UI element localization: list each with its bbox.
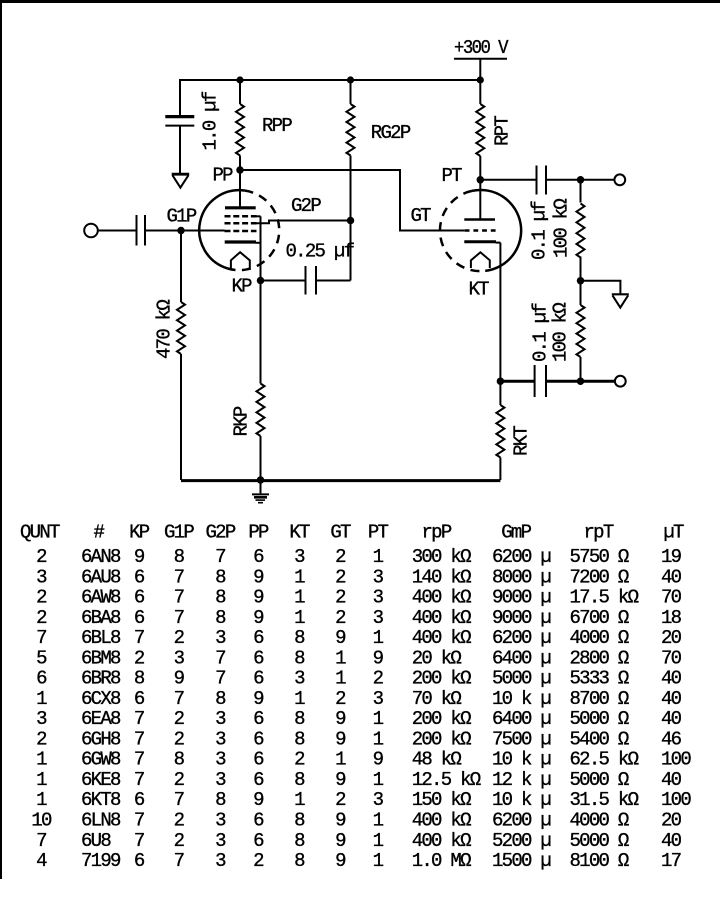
svg-text:5000 Ω: 5000 Ω bbox=[570, 708, 629, 730]
svg-text:300 kΩ: 300 kΩ bbox=[412, 546, 471, 568]
svg-text:2: 2 bbox=[335, 789, 346, 811]
svg-text:PT: PT bbox=[368, 522, 389, 544]
node KP bbox=[232, 276, 265, 298]
svg-text:6AU8: 6AU8 bbox=[81, 566, 121, 588]
svg-text:6: 6 bbox=[253, 830, 264, 852]
svg-text:7: 7 bbox=[174, 607, 184, 629]
wire input to coupling cap bbox=[97, 230, 136, 232]
svg-text:3: 3 bbox=[373, 607, 384, 629]
svg-text:9: 9 bbox=[335, 769, 346, 791]
svg-text:6: 6 bbox=[253, 769, 264, 791]
resistor RG2P bbox=[347, 80, 411, 221]
svg-text:7: 7 bbox=[134, 749, 144, 771]
svg-text:8: 8 bbox=[174, 749, 185, 771]
svg-text:2: 2 bbox=[335, 688, 346, 710]
output terminal (top) bbox=[614, 174, 625, 185]
svg-text:6: 6 bbox=[134, 688, 145, 710]
svg-text:8: 8 bbox=[294, 728, 305, 750]
svg-text:40: 40 bbox=[661, 566, 682, 588]
junction dot bottom output bbox=[577, 377, 585, 385]
resistor RKT bbox=[496, 381, 532, 480]
svg-text:3: 3 bbox=[36, 708, 47, 730]
svg-text:9: 9 bbox=[335, 810, 346, 832]
svg-text:0.1 µf: 0.1 µf bbox=[530, 303, 552, 362]
svg-text:9: 9 bbox=[253, 789, 264, 811]
svg-text:6: 6 bbox=[134, 587, 145, 609]
svg-text:8: 8 bbox=[294, 769, 305, 791]
svg-text:3: 3 bbox=[294, 546, 305, 568]
svg-text:8: 8 bbox=[134, 668, 145, 690]
svg-text:150 kΩ: 150 kΩ bbox=[412, 789, 471, 811]
svg-text:7200 Ω: 7200 Ω bbox=[570, 566, 629, 588]
node G1P bbox=[167, 206, 197, 235]
svg-text:G1P: G1P bbox=[164, 522, 194, 544]
svg-text:7: 7 bbox=[36, 627, 46, 649]
svg-text:19: 19 bbox=[661, 546, 682, 568]
node PT bbox=[442, 165, 485, 187]
svg-text:3: 3 bbox=[36, 566, 47, 588]
svg-text:1.0 µf: 1.0 µf bbox=[200, 91, 222, 150]
svg-text:7: 7 bbox=[36, 830, 46, 852]
svg-text:6BR8: 6BR8 bbox=[81, 668, 121, 690]
svg-text:6700 Ω: 6700 Ω bbox=[570, 607, 629, 629]
resistor RPT bbox=[476, 80, 513, 180]
pentode suppressor grid bbox=[225, 215, 261, 218]
junction dot RPP top bbox=[236, 76, 243, 83]
svg-text:1: 1 bbox=[36, 749, 47, 771]
capacitor 1.0 uF bypass bbox=[165, 79, 221, 173]
svg-text:4000 Ω: 4000 Ω bbox=[570, 627, 629, 649]
svg-text:5: 5 bbox=[36, 647, 47, 669]
svg-text:6EA8: 6EA8 bbox=[81, 708, 121, 730]
svg-text:2: 2 bbox=[134, 647, 145, 669]
svg-text:1: 1 bbox=[335, 749, 346, 771]
svg-text:1: 1 bbox=[294, 607, 305, 629]
wire PT to top output cap bbox=[480, 179, 536, 181]
svg-text:1: 1 bbox=[373, 810, 384, 832]
svg-text:1: 1 bbox=[36, 688, 47, 710]
capacitor 0.1 uF (top output) bbox=[529, 166, 615, 261]
svg-text:6400 µ: 6400 µ bbox=[492, 647, 551, 669]
svg-text:7199: 7199 bbox=[81, 850, 121, 872]
svg-text:6: 6 bbox=[36, 668, 47, 690]
svg-text:1: 1 bbox=[294, 566, 305, 588]
svg-text:470 kΩ: 470 kΩ bbox=[154, 300, 176, 359]
svg-text:1: 1 bbox=[373, 546, 384, 568]
svg-text:8100 Ω: 8100 Ω bbox=[570, 850, 629, 872]
svg-text:4000 Ω: 4000 Ω bbox=[570, 810, 629, 832]
pentode plate bar bbox=[225, 206, 256, 209]
svg-text:3: 3 bbox=[215, 708, 226, 730]
svg-text:400 kΩ: 400 kΩ bbox=[412, 627, 471, 649]
node PP bbox=[213, 165, 244, 187]
svg-text:0.25 µf: 0.25 µf bbox=[286, 241, 355, 263]
svg-text:5000 µ: 5000 µ bbox=[492, 668, 551, 690]
triode plate lead bbox=[479, 180, 481, 219]
svg-text:10 k µ: 10 k µ bbox=[492, 688, 551, 710]
node G2P bbox=[291, 195, 354, 224]
svg-text:6BL8: 6BL8 bbox=[81, 627, 121, 649]
svg-text:1.0 MΩ: 1.0 MΩ bbox=[412, 850, 471, 872]
svg-text:2: 2 bbox=[335, 607, 346, 629]
svg-text:6KT8: 6KT8 bbox=[81, 789, 121, 811]
svg-text:KP: KP bbox=[232, 276, 253, 298]
svg-text:RPT: RPT bbox=[491, 116, 513, 146]
svg-text:KT: KT bbox=[289, 522, 310, 544]
svg-text:3: 3 bbox=[174, 647, 185, 669]
svg-text:2: 2 bbox=[335, 546, 346, 568]
svg-text:6: 6 bbox=[253, 647, 264, 669]
svg-text:2: 2 bbox=[174, 830, 185, 852]
triode cathode bar bbox=[464, 240, 500, 244]
svg-text:3: 3 bbox=[215, 769, 226, 791]
svg-text:46: 46 bbox=[661, 728, 682, 750]
svg-text:G1P: G1P bbox=[167, 206, 197, 228]
svg-text:40: 40 bbox=[661, 769, 682, 791]
svg-text:3: 3 bbox=[215, 728, 226, 750]
svg-text:8: 8 bbox=[215, 587, 226, 609]
svg-text:RPP: RPP bbox=[262, 115, 292, 137]
svg-text:2: 2 bbox=[373, 668, 384, 690]
svg-text:7: 7 bbox=[134, 769, 144, 791]
svg-text:3: 3 bbox=[215, 749, 226, 771]
svg-text:RKT: RKT bbox=[511, 426, 533, 456]
svg-text:6AW8: 6AW8 bbox=[81, 587, 121, 609]
+300 V supply bbox=[454, 37, 509, 83]
triode tube circle (right solid, left dashed) bbox=[440, 190, 521, 271]
svg-text:10 k µ: 10 k µ bbox=[492, 789, 551, 811]
svg-text:8000 µ: 8000 µ bbox=[492, 566, 551, 588]
svg-text:PP: PP bbox=[248, 522, 269, 544]
triode cathode lead down bbox=[499, 243, 501, 382]
svg-text:200 kΩ: 200 kΩ bbox=[412, 708, 471, 730]
svg-text:µT: µT bbox=[663, 522, 684, 544]
svg-text:1: 1 bbox=[335, 647, 346, 669]
svg-text:4: 4 bbox=[36, 850, 47, 872]
svg-text:6KE8: 6KE8 bbox=[81, 769, 121, 791]
svg-text:6: 6 bbox=[134, 566, 145, 588]
svg-text:9: 9 bbox=[335, 830, 346, 852]
svg-text:2: 2 bbox=[253, 850, 264, 872]
svg-text:5000 Ω: 5000 Ω bbox=[570, 769, 629, 791]
svg-text:1500 µ: 1500 µ bbox=[492, 850, 551, 872]
svg-text:8: 8 bbox=[294, 647, 305, 669]
svg-text:8: 8 bbox=[215, 688, 226, 710]
svg-text:6: 6 bbox=[253, 810, 264, 832]
svg-text:1: 1 bbox=[373, 627, 384, 649]
svg-text:3: 3 bbox=[373, 688, 384, 710]
svg-text:2: 2 bbox=[174, 708, 185, 730]
wire KT to bottom output cap bbox=[500, 380, 534, 383]
svg-text:7: 7 bbox=[134, 627, 144, 649]
svg-text:40: 40 bbox=[661, 668, 682, 690]
svg-text:400 kΩ: 400 kΩ bbox=[412, 607, 471, 629]
svg-text:5000 Ω: 5000 Ω bbox=[570, 830, 629, 852]
svg-text:7: 7 bbox=[215, 668, 225, 690]
svg-text:8: 8 bbox=[294, 708, 305, 730]
svg-text:6: 6 bbox=[134, 850, 145, 872]
svg-text:7500 µ: 7500 µ bbox=[492, 728, 551, 750]
svg-text:400 kΩ: 400 kΩ bbox=[412, 830, 471, 852]
svg-text:2: 2 bbox=[335, 566, 346, 588]
svg-text:5200 µ: 5200 µ bbox=[492, 830, 551, 852]
resistor 470 kOhm grid leak bbox=[154, 231, 186, 481]
svg-text:6400 µ: 6400 µ bbox=[492, 708, 551, 730]
triode grid bbox=[465, 229, 496, 232]
svg-text:6GW8: 6GW8 bbox=[81, 749, 121, 771]
svg-text:9: 9 bbox=[335, 627, 346, 649]
svg-text:6200 µ: 6200 µ bbox=[492, 810, 551, 832]
svg-text:6200 µ: 6200 µ bbox=[492, 627, 551, 649]
svg-text:2: 2 bbox=[36, 728, 47, 750]
svg-text:200 kΩ: 200 kΩ bbox=[412, 668, 471, 690]
svg-text:10 k µ: 10 k µ bbox=[492, 749, 551, 771]
svg-text:1: 1 bbox=[36, 789, 47, 811]
svg-text:70: 70 bbox=[661, 587, 682, 609]
svg-text:18: 18 bbox=[661, 607, 682, 629]
svg-text:40: 40 bbox=[661, 688, 682, 710]
resistor RKP bbox=[231, 281, 265, 481]
svg-text:0.1 µf: 0.1 µf bbox=[529, 201, 551, 260]
svg-text:8: 8 bbox=[215, 566, 226, 588]
svg-text:20: 20 bbox=[661, 627, 682, 649]
svg-text:9: 9 bbox=[174, 668, 185, 690]
svg-text:2: 2 bbox=[335, 587, 346, 609]
svg-text:7: 7 bbox=[215, 546, 225, 568]
svg-text:100: 100 bbox=[661, 789, 691, 811]
pentode control grid bbox=[225, 230, 257, 233]
svg-text:2: 2 bbox=[36, 587, 47, 609]
svg-text:8: 8 bbox=[294, 627, 305, 649]
node KT bbox=[469, 279, 505, 385]
svg-text:20: 20 bbox=[661, 810, 682, 832]
svg-text:200 kΩ: 200 kΩ bbox=[412, 728, 471, 750]
pentode tube circle (left solid, right dashed) bbox=[199, 190, 279, 270]
svg-text:5400 Ω: 5400 Ω bbox=[570, 728, 629, 750]
svg-text:6200 µ: 6200 µ bbox=[492, 546, 551, 568]
svg-text:7: 7 bbox=[134, 728, 144, 750]
svg-text:9: 9 bbox=[253, 587, 264, 609]
ground (right, triangle) bbox=[612, 294, 629, 307]
svg-text:3: 3 bbox=[373, 789, 384, 811]
resistor 100 kOhm (bottom) bbox=[550, 281, 585, 382]
svg-text:8: 8 bbox=[294, 830, 305, 852]
junction dot RG2P top bbox=[347, 76, 354, 83]
svg-text:8: 8 bbox=[215, 607, 226, 629]
capacitor 0.1 uF (bottom output) bbox=[530, 303, 616, 397]
svg-text:17.5 kΩ: 17.5 kΩ bbox=[570, 587, 639, 609]
svg-text:GmP: GmP bbox=[501, 522, 531, 544]
svg-text:8700 Ω: 8700 Ω bbox=[570, 688, 629, 710]
svg-text:6: 6 bbox=[253, 728, 264, 750]
pentode screen grid + lead to G2P bbox=[225, 221, 351, 224]
triode plate bar bbox=[464, 218, 495, 221]
svg-text:70 kΩ: 70 kΩ bbox=[412, 688, 462, 710]
svg-text:1: 1 bbox=[294, 789, 305, 811]
svg-text:6: 6 bbox=[253, 708, 264, 730]
svg-text:6: 6 bbox=[253, 668, 264, 690]
svg-text:70: 70 bbox=[661, 647, 682, 669]
svg-text:9: 9 bbox=[373, 647, 384, 669]
svg-text:7: 7 bbox=[134, 830, 144, 852]
svg-text:5750 Ω: 5750 Ω bbox=[570, 546, 629, 568]
svg-text:3: 3 bbox=[215, 850, 226, 872]
resistor RPP bbox=[236, 80, 292, 170]
ground (bottom, earth symbol) bbox=[252, 476, 269, 502]
coupling capacitor (input) bbox=[137, 215, 225, 246]
svg-text:GT: GT bbox=[411, 205, 432, 227]
svg-text:2: 2 bbox=[174, 728, 185, 750]
svg-text:2: 2 bbox=[36, 607, 47, 629]
svg-text:1: 1 bbox=[373, 728, 384, 750]
svg-text:9: 9 bbox=[134, 546, 145, 568]
svg-text:8: 8 bbox=[294, 850, 305, 872]
wire bottom ground rail bbox=[181, 479, 500, 482]
mid node + wire to right ground bbox=[577, 277, 621, 294]
svg-text:3: 3 bbox=[215, 810, 226, 832]
svg-text:2800 Ω: 2800 Ω bbox=[570, 647, 629, 669]
svg-text:2: 2 bbox=[174, 769, 185, 791]
svg-text:40: 40 bbox=[661, 830, 682, 852]
svg-text:2: 2 bbox=[174, 810, 185, 832]
pentode cathode lead down bbox=[260, 216, 262, 280]
svg-text:+300 V: +300 V bbox=[454, 37, 509, 59]
svg-text:5333 Ω: 5333 Ω bbox=[570, 668, 629, 690]
svg-text:100 kΩ: 100 kΩ bbox=[551, 199, 573, 258]
triode heater bbox=[471, 252, 490, 268]
svg-text:20 kΩ: 20 kΩ bbox=[412, 647, 462, 669]
svg-text:7: 7 bbox=[174, 566, 184, 588]
svg-text:6: 6 bbox=[253, 749, 264, 771]
svg-text:PT: PT bbox=[442, 165, 463, 187]
svg-text:48 kΩ: 48 kΩ bbox=[412, 749, 462, 771]
svg-text:2: 2 bbox=[174, 627, 185, 649]
svg-text:6AN8: 6AN8 bbox=[81, 546, 121, 568]
svg-text:1: 1 bbox=[294, 587, 305, 609]
svg-text:6BM8: 6BM8 bbox=[81, 647, 121, 669]
svg-text:9000 µ: 9000 µ bbox=[492, 587, 551, 609]
svg-text:6: 6 bbox=[253, 546, 264, 568]
svg-text:6GH8: 6GH8 bbox=[81, 728, 121, 750]
output terminal (bottom) bbox=[615, 376, 626, 387]
junction dot top output bbox=[577, 176, 585, 184]
svg-text:9: 9 bbox=[253, 688, 264, 710]
pentode heater bbox=[231, 252, 250, 269]
svg-text:rpP: rpP bbox=[421, 522, 451, 544]
svg-text:6CX8: 6CX8 bbox=[81, 688, 121, 710]
svg-text:7: 7 bbox=[174, 789, 184, 811]
svg-text:3: 3 bbox=[373, 566, 384, 588]
input terminal bbox=[84, 224, 98, 238]
svg-text:12.5 kΩ: 12.5 kΩ bbox=[412, 769, 481, 791]
svg-text:7: 7 bbox=[174, 587, 184, 609]
tube data table bbox=[20, 522, 691, 873]
svg-text:1: 1 bbox=[36, 769, 47, 791]
svg-text:100 kΩ: 100 kΩ bbox=[550, 303, 572, 362]
svg-text:1: 1 bbox=[373, 830, 384, 852]
svg-text:6LN8: 6LN8 bbox=[81, 810, 121, 832]
svg-text:3: 3 bbox=[215, 830, 226, 852]
svg-text:G2P: G2P bbox=[205, 522, 235, 544]
pentode plate PP lead bbox=[239, 170, 241, 207]
svg-text:6: 6 bbox=[253, 627, 264, 649]
svg-text:9: 9 bbox=[335, 850, 346, 872]
svg-text:40: 40 bbox=[661, 708, 682, 730]
svg-text:6: 6 bbox=[134, 789, 145, 811]
wire PP to GT grid bbox=[240, 170, 465, 231]
svg-text:rpT: rpT bbox=[583, 522, 613, 544]
svg-text:7: 7 bbox=[134, 708, 144, 730]
svg-text:8: 8 bbox=[174, 546, 185, 568]
resistor 100 kOhm (top) bbox=[551, 180, 585, 281]
svg-text:QUNT: QUNT bbox=[20, 522, 60, 544]
svg-text:9000 µ: 9000 µ bbox=[492, 607, 551, 629]
svg-text:9: 9 bbox=[253, 566, 264, 588]
svg-text:8: 8 bbox=[215, 789, 226, 811]
svg-text:G2P: G2P bbox=[291, 195, 321, 217]
svg-text:140 kΩ: 140 kΩ bbox=[412, 566, 471, 588]
pentode cathode bar bbox=[225, 240, 261, 244]
svg-text:100: 100 bbox=[661, 749, 691, 771]
svg-text:2: 2 bbox=[294, 749, 305, 771]
svg-text:7: 7 bbox=[215, 647, 225, 669]
svg-text:9: 9 bbox=[335, 728, 346, 750]
svg-text:1: 1 bbox=[373, 769, 384, 791]
svg-text:1: 1 bbox=[335, 668, 346, 690]
ground (left, triangle) bbox=[172, 174, 190, 187]
svg-text:KT: KT bbox=[469, 279, 490, 301]
svg-text:62.5 kΩ: 62.5 kΩ bbox=[570, 749, 639, 771]
svg-text:RG2P: RG2P bbox=[371, 122, 411, 144]
svg-text:6U8: 6U8 bbox=[81, 830, 111, 852]
svg-text:9: 9 bbox=[253, 607, 264, 629]
svg-text:1: 1 bbox=[373, 850, 384, 872]
svg-text:9: 9 bbox=[373, 749, 384, 771]
svg-text:17: 17 bbox=[661, 850, 681, 872]
svg-text:2: 2 bbox=[36, 546, 47, 568]
svg-text:400 kΩ: 400 kΩ bbox=[412, 587, 471, 609]
svg-text:400 kΩ: 400 kΩ bbox=[412, 810, 471, 832]
svg-text:1: 1 bbox=[294, 688, 305, 710]
svg-text:8: 8 bbox=[294, 810, 305, 832]
svg-text:KP: KP bbox=[129, 522, 150, 544]
svg-text:10: 10 bbox=[31, 810, 52, 832]
svg-text:1: 1 bbox=[373, 708, 384, 730]
svg-text:12 k µ: 12 k µ bbox=[492, 769, 551, 791]
svg-text:6: 6 bbox=[134, 607, 145, 629]
svg-text:3: 3 bbox=[294, 668, 305, 690]
svg-text:7: 7 bbox=[174, 688, 184, 710]
svg-text:#: # bbox=[93, 522, 104, 544]
svg-text:6BA8: 6BA8 bbox=[81, 607, 121, 629]
wire G2P down to 0.25uF bbox=[350, 221, 352, 281]
svg-text:GT: GT bbox=[330, 522, 351, 544]
svg-text:31.5 kΩ: 31.5 kΩ bbox=[570, 789, 639, 811]
svg-text:7: 7 bbox=[174, 850, 184, 872]
svg-text:3: 3 bbox=[373, 587, 384, 609]
wire top supply rail bbox=[180, 79, 480, 81]
svg-text:7: 7 bbox=[134, 810, 144, 832]
svg-text:RKP: RKP bbox=[231, 406, 253, 436]
svg-text:PP: PP bbox=[213, 165, 234, 187]
capacitor 0.25 uF bbox=[261, 241, 355, 295]
svg-text:9: 9 bbox=[335, 708, 346, 730]
svg-text:3: 3 bbox=[215, 627, 226, 649]
